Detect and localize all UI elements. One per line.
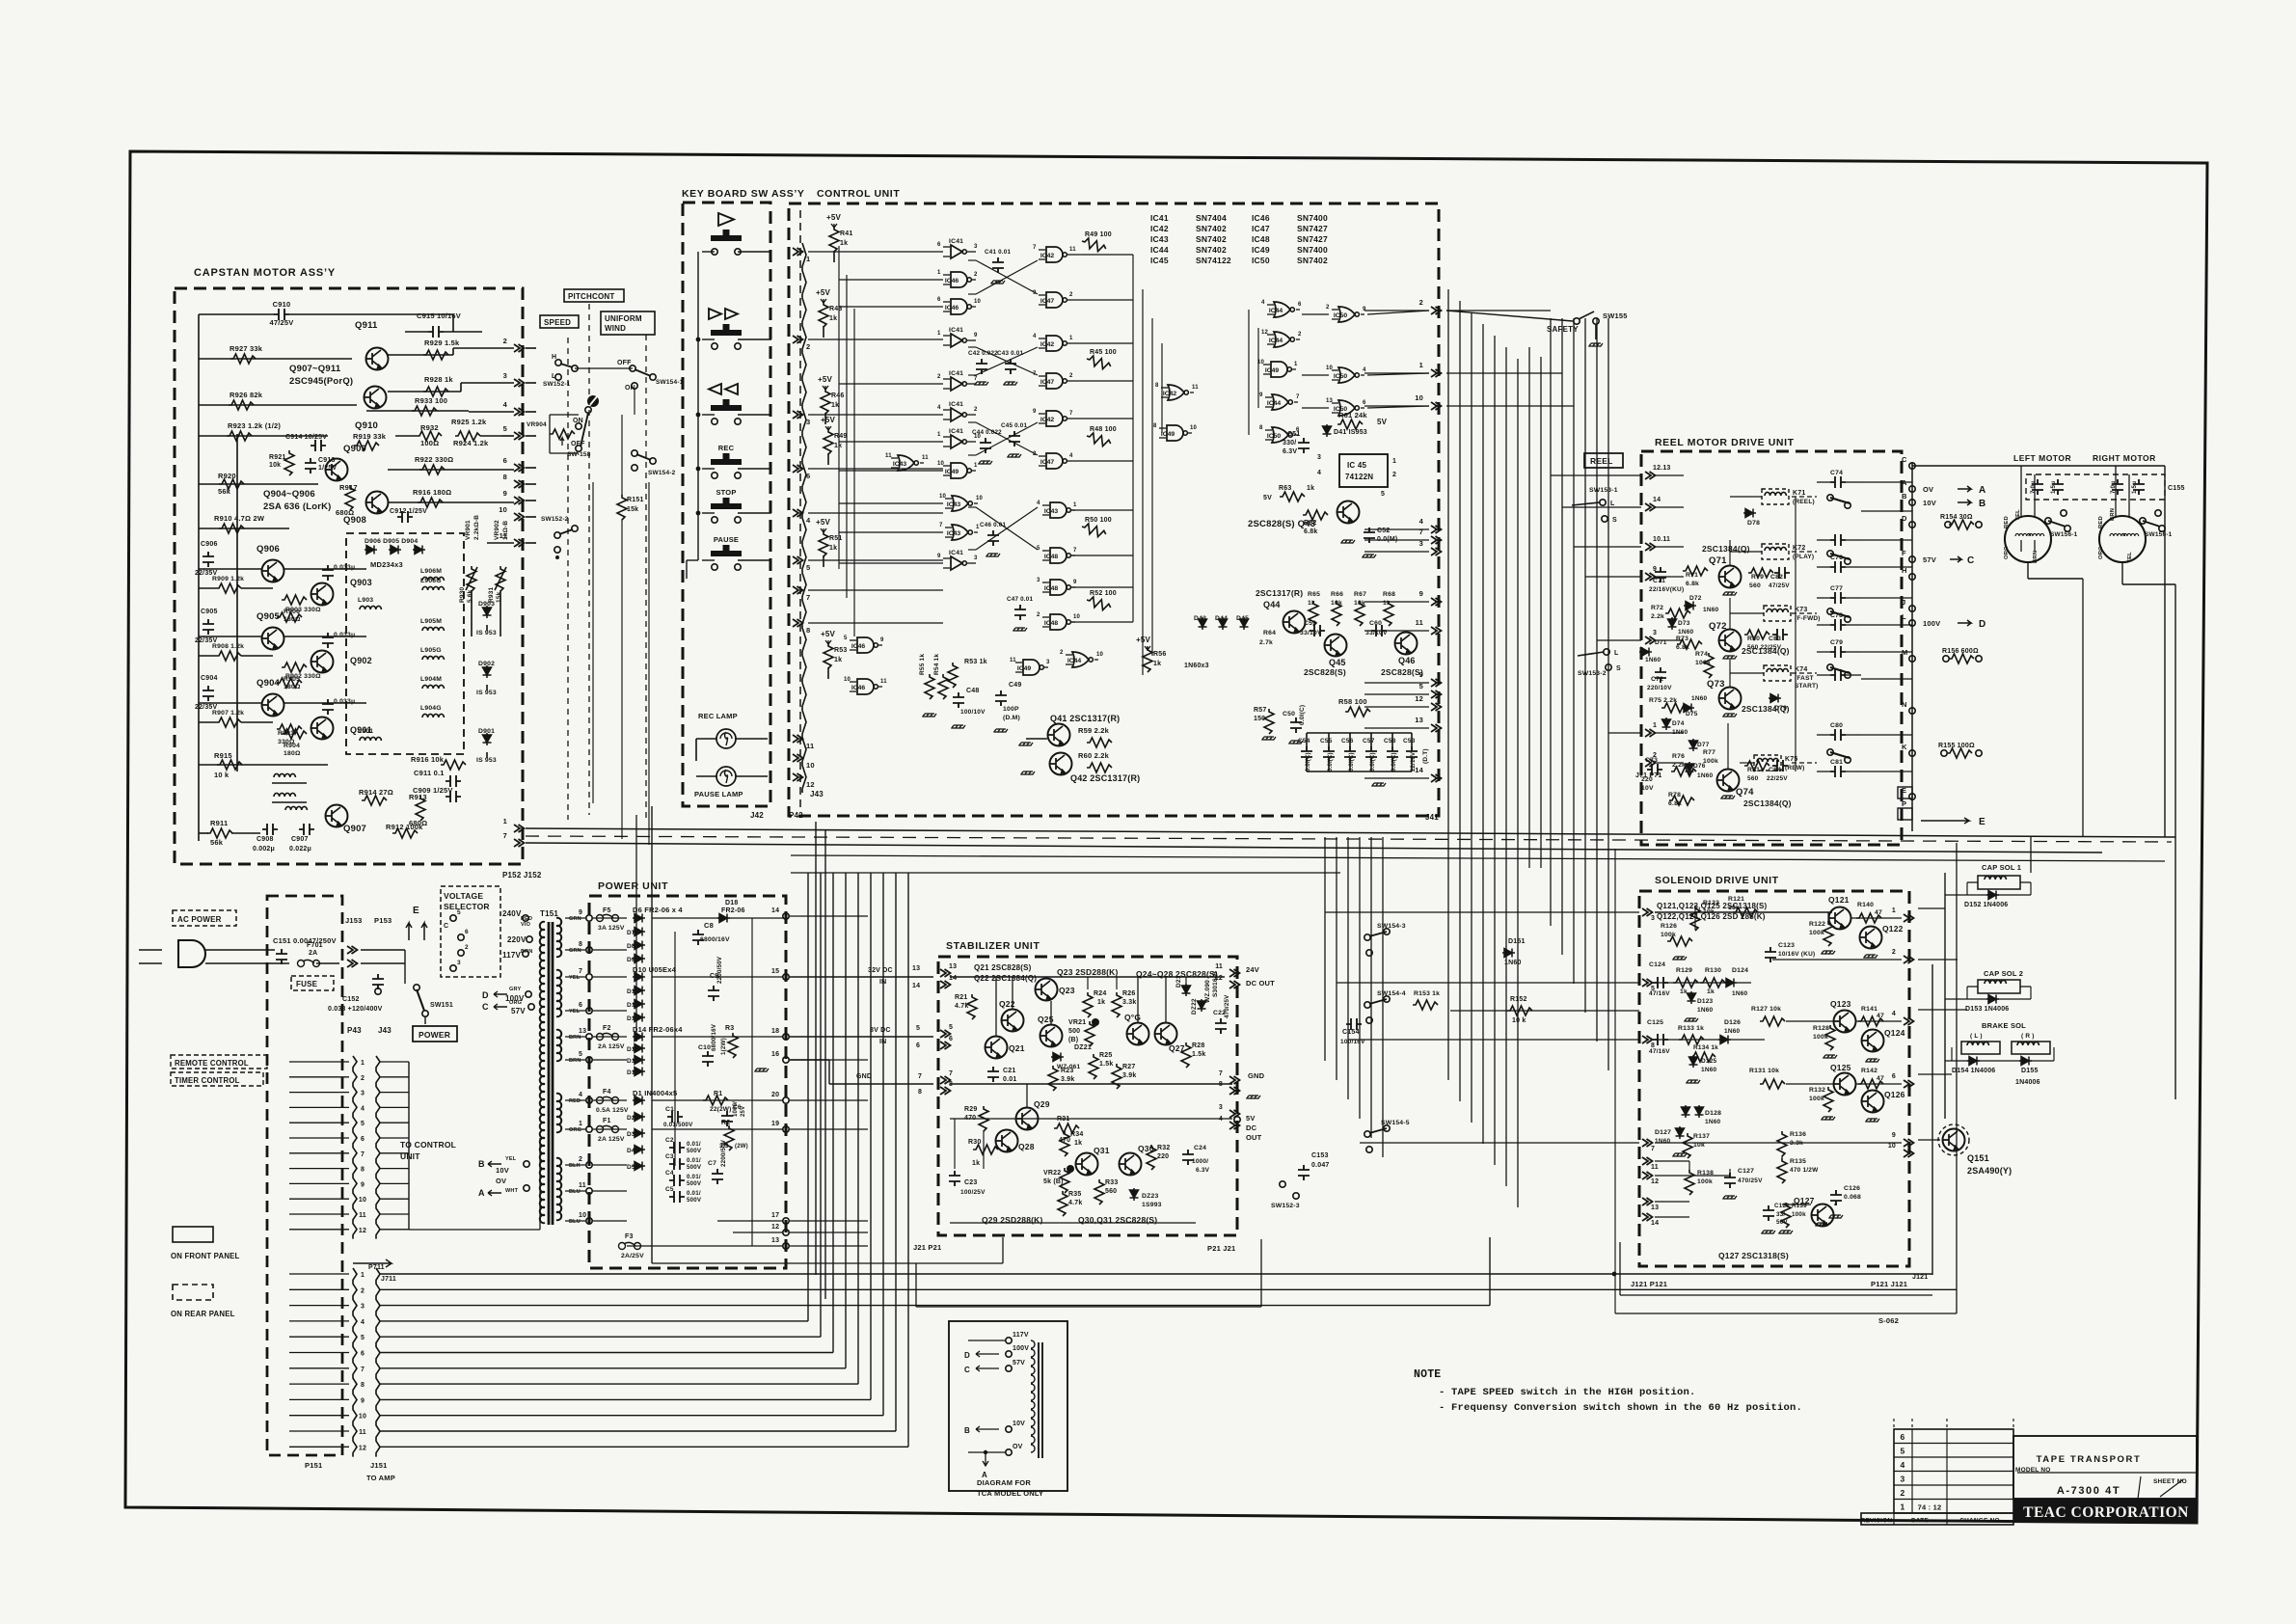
- svg-text:Q904~Q906: Q904~Q906: [263, 489, 315, 500]
- svg-text:START): START): [1795, 683, 1819, 690]
- svg-text:+5V: +5V: [1136, 636, 1151, 644]
- svg-text:B: B: [1979, 499, 1985, 509]
- node E: [1909, 794, 1915, 799]
- tap: [586, 1097, 592, 1103]
- svg-text:11: 11: [885, 453, 892, 459]
- relay contact: [1830, 561, 1846, 573]
- svg-text:9: 9: [937, 554, 941, 559]
- svg-text:TIMER CONTROL: TIMER CONTROL: [175, 1076, 240, 1085]
- svg-text:13: 13: [1326, 398, 1334, 404]
- svg-text:CAPSTAN MOTOR ASS’Y: CAPSTAN MOTOR ASS’Y: [194, 267, 336, 279]
- gate IC41: [951, 245, 966, 258]
- svg-text:C77: C77: [1830, 585, 1843, 592]
- pin: [940, 1076, 951, 1084]
- svg-text:A-7300 4T: A-7300 4T: [2057, 1485, 2120, 1497]
- svg-text:6: 6: [579, 1002, 582, 1009]
- svg-text:IC48: IC48: [1252, 234, 1270, 244]
- svg-text:C906: C906: [201, 541, 218, 548]
- svg-text:VR21: VR21: [1068, 1019, 1086, 1026]
- contact arm: [1827, 609, 1833, 614]
- svg-text:2: 2: [1892, 949, 1896, 956]
- svg-text:IC44: IC44: [1150, 245, 1169, 255]
- svg-text:R907 1.2k: R907 1.2k: [212, 710, 244, 717]
- svg-text:1N60: 1N60: [1645, 657, 1661, 663]
- svg-text:F: F: [1902, 549, 1906, 557]
- svg-text:9: 9: [1033, 409, 1037, 415]
- svg-text:4: 4: [937, 405, 941, 411]
- svg-text:IC47: IC47: [1252, 224, 1270, 233]
- svg-text:K71: K71: [1793, 490, 1805, 497]
- svg-text:ON FRONT PANEL: ON FRONT PANEL: [171, 1252, 240, 1260]
- transistor Q910: [365, 387, 387, 409]
- pin: [1904, 956, 1914, 963]
- Q45: [1325, 635, 1347, 657]
- svg-text:PITCHCONT: PITCHCONT: [568, 292, 614, 301]
- svg-text:RED: RED: [2098, 516, 2104, 528]
- svg-text:C154: C154: [1342, 1029, 1360, 1036]
- IC45 74122N: [1339, 454, 1388, 487]
- remote control labels: [171, 1055, 267, 1069]
- svg-text:OV: OV: [1923, 485, 1933, 494]
- svg-text:Q127 2SC1318(S): Q127 2SC1318(S): [1718, 1251, 1789, 1260]
- svg-text:240V: 240V: [502, 909, 522, 918]
- svg-text:(F-FWD): (F-FWD): [1795, 615, 1821, 622]
- svg-text:IC50: IC50: [1334, 312, 1348, 319]
- gate IC49: [1023, 660, 1043, 675]
- svg-text:R910 4.7Ω 2W: R910 4.7Ω 2W: [214, 514, 265, 523]
- svg-text:GRN: GRN: [569, 948, 581, 954]
- pin: [1645, 729, 1656, 737]
- svg-text:12.13: 12.13: [1653, 465, 1671, 472]
- resistor R923: [199, 435, 328, 437]
- svg-text:1k: 1k: [1097, 999, 1105, 1006]
- svg-text:47: 47: [1875, 909, 1882, 916]
- svg-text:2: 2: [503, 337, 507, 345]
- svg-text:R29: R29: [964, 1106, 977, 1113]
- D43 D44 D45: [1199, 617, 1207, 630]
- svg-text:SW155: SW155: [1603, 311, 1628, 320]
- diode D902: [483, 665, 492, 678]
- svg-text:C74: C74: [1830, 470, 1843, 476]
- svg-text:Q72: Q72: [1709, 621, 1727, 632]
- svg-text:L905G: L905G: [420, 647, 442, 654]
- svg-text:SW153-2: SW153-2: [1578, 670, 1607, 677]
- svg-text:3.3k: 3.3k: [1122, 999, 1136, 1006]
- svg-text:- Frequensy Conversion switch: - Frequensy Conversion switch shown in t…: [1439, 1402, 1802, 1414]
- pin: [783, 913, 789, 919]
- svg-text:IN: IN: [879, 1039, 886, 1045]
- svg-text:IN: IN: [879, 979, 886, 986]
- svg-text:4: 4: [1069, 453, 1073, 459]
- svg-text:1: 1: [1069, 336, 1073, 341]
- gate IC44: [1072, 652, 1093, 667]
- svg-text:15k: 15k: [627, 506, 638, 513]
- svg-text:470/25V: 470/25V: [1224, 994, 1230, 1018]
- svg-text:13: 13: [1415, 716, 1423, 724]
- svg-text:T151: T151: [540, 909, 558, 918]
- svg-text:7: 7: [974, 376, 978, 382]
- transistor Q905: [262, 628, 284, 650]
- svg-text:3: 3: [806, 418, 810, 426]
- svg-text:R57: R57: [1254, 707, 1266, 714]
- svg-text:D77: D77: [1697, 742, 1710, 748]
- svg-text:P: P: [1902, 799, 1906, 808]
- svg-text:IC47: IC47: [1040, 459, 1055, 466]
- svg-text:Q°G: Q°G: [1124, 1013, 1141, 1022]
- svg-text:7: 7: [806, 593, 810, 602]
- svg-text:560: 560: [1749, 582, 1761, 589]
- svg-text:R930: R930: [459, 586, 466, 603]
- transformer T901: [274, 773, 295, 777]
- svg-text:C151 0.0047/250V: C151 0.0047/250V: [273, 936, 337, 945]
- svg-text:18: 18: [771, 1028, 779, 1035]
- svg-text:R135: R135: [1790, 1158, 1806, 1165]
- svg-text:J711: J711: [381, 1276, 396, 1283]
- gate IC41: [951, 435, 966, 448]
- svg-text:6800/16V: 6800/16V: [700, 936, 730, 943]
- svg-text:C52: C52: [1377, 528, 1390, 534]
- svg-text:FR2-06: FR2-06: [721, 907, 745, 914]
- relay K71: [1762, 489, 1789, 504]
- coil L905M: [422, 627, 444, 631]
- diode D901: [483, 733, 492, 745]
- svg-text:L904M: L904M: [420, 676, 442, 683]
- svg-text:1k: 1k: [834, 443, 842, 449]
- reel label: [1584, 453, 1623, 468]
- wire: [702, 251, 715, 253]
- svg-text:5V: 5V: [1263, 495, 1272, 501]
- svg-text:TEAC CORPORATION: TEAC CORPORATION: [2023, 1504, 2189, 1521]
- wire: [526, 483, 536, 485]
- svg-text:R127 10k: R127 10k: [1751, 1006, 1781, 1013]
- svg-text:D2: D2: [627, 1115, 635, 1122]
- VR902: [496, 566, 505, 591]
- svg-text:R28: R28: [1192, 1042, 1204, 1049]
- svg-text:S: S: [1616, 665, 1621, 672]
- pin: [1904, 1139, 1914, 1147]
- svg-text:D: D: [482, 990, 489, 1000]
- Q46: [1395, 633, 1418, 655]
- coil L903: [360, 606, 381, 609]
- diode D5: [633, 1162, 645, 1171]
- svg-text:Q911: Q911: [355, 320, 378, 331]
- C24: [1182, 1150, 1194, 1165]
- svg-text:R66: R66: [1331, 591, 1343, 598]
- svg-text:IC49: IC49: [1252, 245, 1270, 255]
- svg-text:SW154-2: SW154-2: [648, 470, 676, 476]
- svg-text:C125: C125: [1647, 1019, 1663, 1026]
- svg-text:470/25V: 470/25V: [1738, 1177, 1763, 1184]
- wire: [526, 516, 536, 518]
- diode D1: [633, 1096, 645, 1105]
- svg-text:R65: R65: [1308, 591, 1320, 598]
- svg-text:R921: R921: [269, 454, 286, 461]
- svg-text:J121 P121: J121 P121: [1631, 1280, 1667, 1288]
- svg-text:2: 2: [1069, 292, 1073, 298]
- sheet no: [2138, 1476, 2141, 1499]
- pin: [1904, 1150, 1914, 1157]
- resistor R921: [284, 450, 294, 475]
- gate IC41: [951, 408, 966, 421]
- ON FRONT PANEL: [173, 1227, 213, 1242]
- svg-text:560: 560: [1105, 1188, 1117, 1195]
- capacitor: [322, 565, 334, 581]
- svg-text:4: 4: [1261, 300, 1265, 306]
- resistor R925: [388, 354, 453, 356]
- svg-text:2: 2: [1326, 305, 1330, 311]
- svg-text:1: 1: [937, 432, 941, 438]
- svg-text:10: 10: [1888, 1143, 1896, 1150]
- coil L905G: [422, 656, 444, 660]
- svg-text:14: 14: [949, 975, 957, 982]
- wire: [236, 434, 238, 771]
- svg-text:D6 FR2-06 x 4: D6 FR2-06 x 4: [633, 906, 683, 914]
- gate IC46: [857, 679, 878, 694]
- svg-text:SN7404: SN7404: [1196, 213, 1227, 223]
- PITCHCONT label: [564, 289, 624, 302]
- svg-text:D73: D73: [1678, 620, 1690, 627]
- diode D10: [633, 973, 645, 982]
- svg-text:D10 U05Ex4: D10 U05Ex4: [633, 965, 677, 974]
- stabilizer wires: [950, 976, 1225, 978]
- svg-text:1k: 1k: [1707, 988, 1715, 995]
- svg-text:E: E: [413, 906, 419, 916]
- svg-text:YEL: YEL: [2015, 509, 2021, 521]
- relay contact: [1830, 669, 1846, 681]
- svg-text:REEL: REEL: [1590, 456, 1612, 466]
- svg-text:47/16V: 47/16V: [1649, 1048, 1670, 1055]
- svg-text:WIND: WIND: [605, 324, 626, 333]
- svg-text:9: 9: [1363, 307, 1366, 312]
- svg-text:Q23 2SD288(K): Q23 2SD288(K): [1057, 967, 1119, 977]
- svg-text:L: L: [1902, 612, 1906, 621]
- svg-text:Q123: Q123: [1830, 999, 1851, 1009]
- svg-text:C80: C80: [1830, 722, 1843, 729]
- svg-text:3: 3: [974, 244, 978, 250]
- svg-text:SN7427: SN7427: [1297, 234, 1328, 244]
- revision table: [1894, 1429, 2013, 1513]
- svg-text:Q73: Q73: [1707, 679, 1725, 690]
- svg-text:500V: 500V: [687, 1164, 702, 1171]
- svg-text:4: 4: [503, 400, 508, 409]
- svg-text:VOLTAGE: VOLTAGE: [444, 891, 483, 901]
- cross coupling: [976, 347, 1038, 375]
- svg-text:SN7402: SN7402: [1196, 245, 1227, 255]
- svg-text:R136: R136: [1790, 1131, 1806, 1138]
- node L: [1909, 620, 1915, 626]
- wire: [526, 500, 536, 501]
- capacitor C47 0.01: [1014, 605, 1026, 620]
- svg-text:4: 4: [1363, 367, 1366, 373]
- svg-text:YEL: YEL: [569, 975, 581, 981]
- svg-text:S: S: [1612, 517, 1617, 524]
- svg-text:REVISION: REVISION: [1861, 1518, 1893, 1525]
- C51: [1298, 438, 1310, 453]
- diode D9: [633, 955, 645, 963]
- wire: [380, 1137, 409, 1139]
- rew button: [709, 384, 738, 394]
- svg-text:C43 0.01: C43 0.01: [997, 350, 1023, 357]
- svg-text:2: 2: [1419, 298, 1423, 307]
- wire: [702, 468, 715, 470]
- Q44: [1283, 611, 1306, 634]
- svg-text:7: 7: [1651, 1146, 1655, 1152]
- svg-text:C84: C84: [1769, 767, 1781, 773]
- wire: [526, 347, 536, 349]
- svg-text:6: 6: [1363, 400, 1366, 406]
- svg-text:REEL MOTOR DRIVE UNIT: REEL MOTOR DRIVE UNIT: [1655, 437, 1795, 448]
- svg-text:VIO: VIO: [521, 922, 531, 928]
- svg-text:10: 10: [844, 677, 851, 683]
- svg-text:R915: R915: [214, 751, 232, 760]
- svg-text:1.5k: 1.5k: [1099, 1061, 1113, 1068]
- svg-text:R26: R26: [1122, 990, 1135, 997]
- svg-text:ORG: ORG: [2098, 546, 2104, 559]
- svg-text:IC49: IC49: [1265, 367, 1280, 374]
- svg-text:SELECTOR: SELECTOR: [444, 902, 490, 911]
- pin: [1645, 573, 1656, 581]
- rec lamp: [716, 729, 736, 748]
- wire: [198, 314, 200, 841]
- svg-text:SW156-1: SW156-1: [2145, 531, 2173, 538]
- svg-text:R3: R3: [725, 1025, 734, 1032]
- svg-text:C53: C53: [1403, 738, 1416, 744]
- gate IC44: [1272, 394, 1292, 410]
- pin: [940, 1030, 951, 1038]
- svg-text:IC46: IC46: [945, 278, 959, 284]
- svg-text:16: 16: [771, 1051, 779, 1058]
- SW156-1 right: [2140, 518, 2146, 524]
- diode D16: [633, 1056, 645, 1065]
- control unit right pins: [1431, 307, 1442, 314]
- svg-text:6.8k: 6.8k: [1304, 528, 1317, 535]
- svg-text:(REW): (REW): [1785, 765, 1805, 771]
- svg-text:1: 1: [1653, 722, 1657, 729]
- svg-text:R53: R53: [834, 647, 847, 654]
- svg-text:11: 11: [806, 742, 814, 750]
- svg-text:Q124: Q124: [1884, 1028, 1905, 1038]
- svg-text:R27: R27: [1122, 1064, 1135, 1070]
- pause lamp: [716, 767, 736, 786]
- capacitor C41 0.01: [992, 257, 1004, 273]
- svg-text:R152: R152: [1510, 996, 1527, 1003]
- svg-text:D154 1N4006: D154 1N4006: [1952, 1068, 1995, 1074]
- svg-text:2: 2: [361, 1287, 365, 1294]
- svg-text:F5: F5: [603, 907, 611, 914]
- svg-text:57V: 57V: [511, 1007, 526, 1015]
- transistor Q71: [1719, 566, 1742, 588]
- svg-text:12: 12: [771, 1224, 779, 1231]
- svg-text:K: K: [1902, 743, 1907, 751]
- svg-text:6: 6: [361, 1136, 365, 1143]
- wire: [702, 338, 715, 340]
- diode D7: [633, 928, 645, 936]
- gate IC49: [951, 463, 971, 478]
- svg-text:J: J: [1902, 598, 1905, 607]
- svg-text:14: 14: [771, 907, 779, 914]
- svg-text:BLU: BLU: [569, 1219, 581, 1225]
- relay contact: [1830, 619, 1846, 631]
- svg-text:C82: C82: [1770, 574, 1783, 581]
- svg-text:C908: C908: [257, 836, 274, 843]
- svg-text:22(2W): 22(2W): [710, 1106, 732, 1113]
- AC POWER label: [173, 910, 236, 926]
- svg-text:C58: C58: [1384, 738, 1396, 744]
- svg-text:R67: R67: [1354, 591, 1366, 598]
- svg-text:TAPE TRANSPORT: TAPE TRANSPORT: [2037, 1454, 2142, 1465]
- svg-text:14: 14: [1653, 497, 1661, 503]
- svg-text:Q41 2SC1317(R): Q41 2SC1317(R): [1050, 714, 1120, 723]
- revision header: [1861, 1513, 2013, 1525]
- svg-text:0.0l(C): 0.0l(C): [1306, 752, 1311, 771]
- svg-text:D5: D5: [627, 1164, 635, 1171]
- coil L904G: [422, 714, 444, 717]
- gate IC42: [1046, 247, 1067, 262]
- svg-text:5: 5: [1381, 491, 1385, 498]
- svg-text:IC41: IC41: [1150, 213, 1169, 223]
- svg-text:32V DC: 32V DC: [868, 967, 893, 974]
- svg-text:OFF: OFF: [617, 360, 632, 366]
- svg-text:J71 P71: J71 P71: [1635, 772, 1661, 779]
- svg-text:C152: C152: [342, 996, 360, 1003]
- svg-text:D123: D123: [1697, 998, 1714, 1005]
- svg-text:R919 33k: R919 33k: [353, 432, 387, 441]
- svg-text:GND: GND: [856, 1073, 872, 1080]
- Q122: [1860, 927, 1882, 949]
- svg-text:R908 1.2k: R908 1.2k: [212, 643, 244, 650]
- svg-text:GRN: GRN: [569, 916, 581, 922]
- svg-text:2: 2: [1060, 650, 1064, 656]
- svg-text:L904G: L904G: [420, 705, 442, 712]
- solenoid feed lines: [1324, 837, 1326, 1061]
- D79: [1769, 694, 1781, 703]
- svg-text:P43: P43: [347, 1026, 362, 1035]
- svg-text:C153: C153: [1311, 1152, 1329, 1159]
- C6: [721, 1111, 733, 1126]
- svg-text:0.0l(C): 0.0l(C): [1391, 752, 1397, 771]
- capstan connector pins: [514, 344, 525, 352]
- svg-text:1N60: 1N60: [1703, 607, 1719, 613]
- svg-text:Q42 2SC1317(R): Q42 2SC1317(R): [1070, 773, 1140, 783]
- wires cap sol: [1944, 873, 1946, 1119]
- pin: [1904, 1080, 1914, 1088]
- svg-text:1: 1: [806, 255, 810, 263]
- svg-text:C46 0.01: C46 0.01: [980, 522, 1006, 528]
- svg-text:0.5A 125V: 0.5A 125V: [596, 1107, 629, 1114]
- svg-text:R928 1k: R928 1k: [424, 375, 453, 384]
- svg-text:0.0l(C): 0.0l(C): [1370, 752, 1376, 771]
- svg-text:DIAGRAM FOR: DIAGRAM FOR: [977, 1478, 1031, 1487]
- svg-text:Q21: Q21: [1009, 1043, 1025, 1053]
- svg-text:R142: R142: [1861, 1068, 1877, 1074]
- pin: [940, 981, 951, 988]
- svg-text:1/25V: 1/25V: [318, 465, 337, 472]
- pin: [1642, 1157, 1653, 1165]
- svg-text:D74: D74: [1672, 720, 1685, 727]
- svg-text:0.01/: 0.01/: [687, 1157, 701, 1164]
- capacitor C913: [305, 458, 316, 474]
- svg-text:+5V: +5V: [816, 288, 831, 297]
- svg-text:Q28: Q28: [1018, 1142, 1035, 1151]
- pin: [1645, 472, 1656, 479]
- svg-text:N: N: [1902, 700, 1907, 709]
- svg-text:D: D: [1979, 619, 1985, 630]
- svg-text:(FAST: (FAST: [1795, 675, 1814, 682]
- svg-text:0.0l(C): 0.0l(C): [1349, 752, 1355, 771]
- svg-text:SN7400: SN7400: [1297, 245, 1328, 255]
- svg-text:10: 10: [939, 494, 947, 500]
- svg-text:1: 1: [937, 331, 941, 337]
